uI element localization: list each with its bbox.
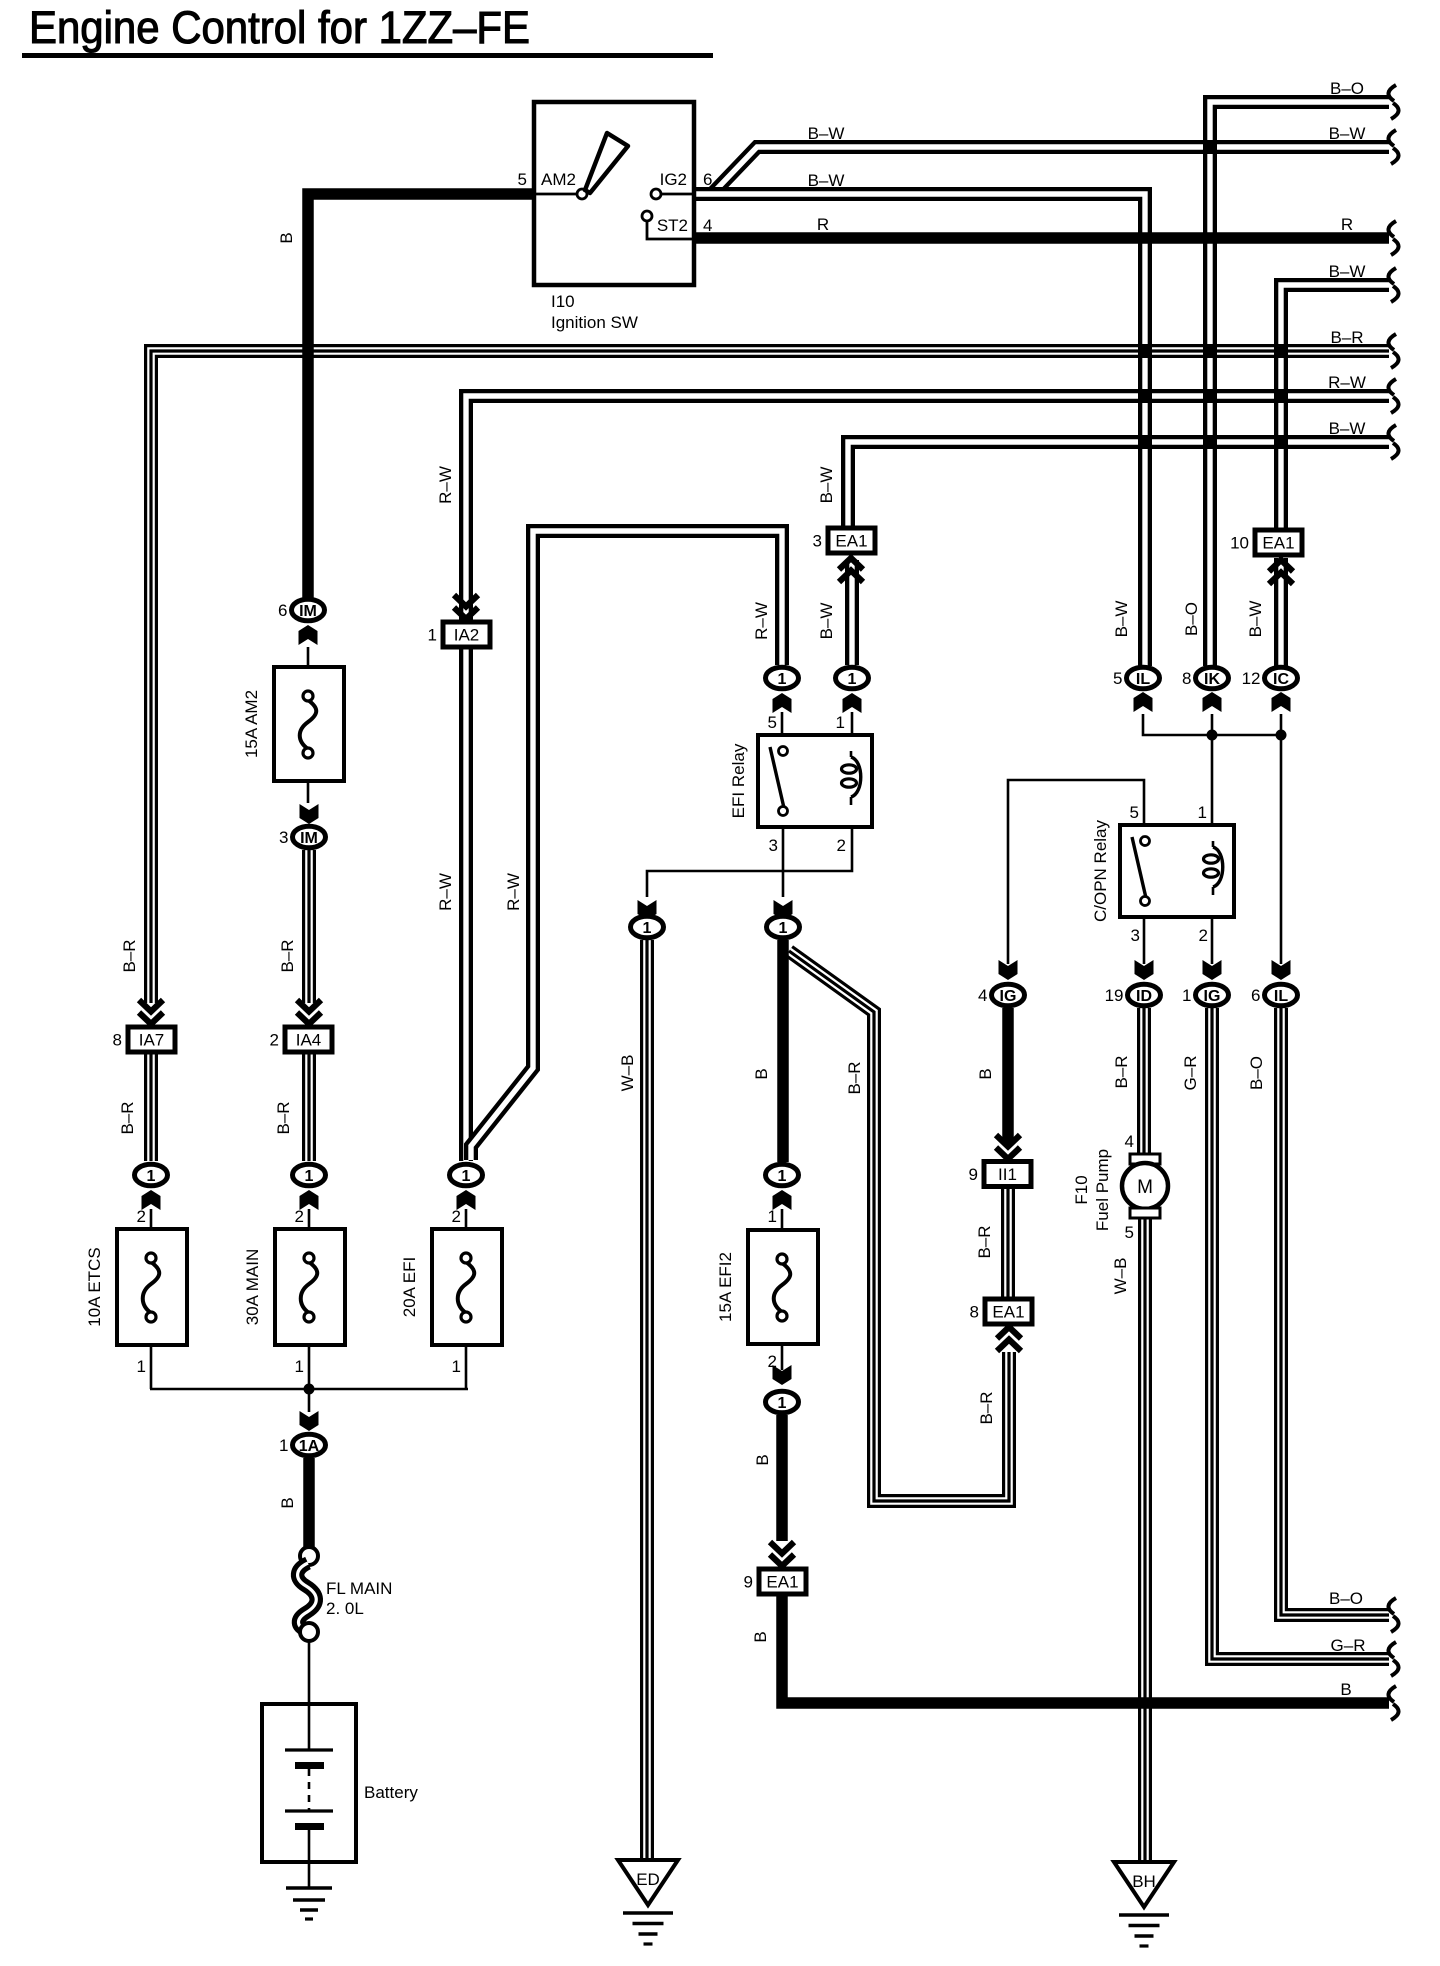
svg-text:2: 2 xyxy=(270,1031,279,1050)
fuse 15A EFI2 xyxy=(716,1230,818,1344)
wire end B–W xyxy=(1388,425,1398,459)
wire B thick from EFI relay pin 3 to 15A EFI2 fuse xyxy=(777,940,789,1162)
arrow into connector IL pin 5 xyxy=(1134,692,1153,712)
arrow into junction connector EA1 pin 9 xyxy=(770,1542,794,1566)
wire B–W from ignition SW IG2 down to connector IL pin 5 xyxy=(694,194,1145,666)
svg-text:B–W: B–W xyxy=(1112,601,1131,638)
arrow into junction connector EA1 pin 3 xyxy=(839,558,863,582)
svg-text:R: R xyxy=(817,215,829,234)
svg-text:1: 1 xyxy=(1182,986,1191,1005)
wire: C/OPN relay pin 3 to connector ID pin 19 xyxy=(1143,902,1146,964)
svg-text:1: 1 xyxy=(147,1168,156,1185)
fuse 30A MAIN xyxy=(243,1229,345,1345)
connector IL pin 5 xyxy=(1113,667,1159,689)
svg-text:ID: ID xyxy=(1136,988,1152,1005)
svg-text:IA2: IA2 xyxy=(454,626,480,645)
svg-text:10A ETCS: 10A ETCS xyxy=(85,1247,104,1326)
svg-text:20A EFI: 20A EFI xyxy=(400,1257,419,1317)
connector II1 pin 9 xyxy=(969,1162,1031,1187)
svg-text:IL: IL xyxy=(1136,671,1150,688)
svg-text:B–W: B–W xyxy=(1329,124,1366,143)
junction connector EA1 pin 9 xyxy=(744,1569,806,1594)
svg-text:B–R: B–R xyxy=(845,1061,864,1094)
svg-text:19: 19 xyxy=(1105,986,1124,1005)
svg-text:B–W: B–W xyxy=(1246,601,1265,638)
svg-text:2. 0L: 2. 0L xyxy=(326,1599,364,1618)
svg-text:B–W: B–W xyxy=(808,124,845,143)
wire B–O from connector IK pin 8 to right edge xyxy=(1210,102,1389,666)
svg-text:B–O: B–O xyxy=(1182,602,1201,636)
svg-text:1: 1 xyxy=(778,671,787,688)
svg-text:B–R: B–R xyxy=(1330,328,1363,347)
wire B–O from connector IL pin 6 to right edge xyxy=(1281,1008,1389,1615)
svg-text:3: 3 xyxy=(279,828,288,847)
svg-text:6: 6 xyxy=(703,170,712,189)
svg-text:Fuel Pump: Fuel Pump xyxy=(1093,1149,1112,1231)
junction node at C/OPN relay coil feed xyxy=(1207,730,1218,741)
connector pin 1 above 15A EFI2 fuse xyxy=(766,1164,799,1186)
arrow into connector IG pin 1 xyxy=(1203,960,1222,980)
fuse 10A ETCS xyxy=(85,1229,187,1345)
svg-text:FL MAIN: FL MAIN xyxy=(326,1579,392,1598)
svg-text:Battery: Battery xyxy=(364,1783,418,1802)
wire B thick from ignition SW AM2 to connector IM pin 6 xyxy=(308,194,534,599)
ground at battery xyxy=(286,1888,332,1919)
svg-text:M: M xyxy=(1137,1177,1153,1198)
wire: EFI relay pin 1 lead xyxy=(851,712,854,758)
wire: EFI relay pin 5 lead xyxy=(781,712,784,747)
svg-text:IA4: IA4 xyxy=(296,1031,322,1050)
svg-text:ST2: ST2 xyxy=(657,216,688,235)
wire R–W loop from EFI relay pin 5 to 20A EFI fuse xyxy=(471,531,782,1160)
svg-text:2: 2 xyxy=(452,1207,461,1226)
svg-text:BH: BH xyxy=(1132,1872,1156,1891)
connector IG pin 1 xyxy=(1182,984,1228,1006)
svg-text:1: 1 xyxy=(462,1168,471,1185)
wire R thick from ignition SW ST2 to right edge xyxy=(694,232,1389,244)
svg-text:IG2: IG2 xyxy=(660,170,687,189)
svg-text:2: 2 xyxy=(837,836,846,855)
svg-text:G–R: G–R xyxy=(1331,1636,1366,1655)
arrow into connector at EFI relay pin 5 xyxy=(773,693,792,713)
title: Engine Control for 1ZZ-FE xyxy=(22,2,713,58)
svg-text:2: 2 xyxy=(137,1207,146,1226)
wire R–W from right edge through junction connector IA2 to 20A EFI fuse xyxy=(466,396,1389,1161)
fuse pin numbers xyxy=(137,1207,777,1376)
svg-text:1: 1 xyxy=(768,1207,777,1226)
wire G–R from connector IG pin 1 to right edge xyxy=(1212,1008,1389,1659)
ground BH xyxy=(1114,1862,1174,1946)
ignition switch I10 xyxy=(518,102,713,332)
arrow into connector at EFI relay pin 3 xyxy=(774,900,793,920)
svg-text:B–O: B–O xyxy=(1329,1589,1363,1608)
svg-text:B–R: B–R xyxy=(977,1391,996,1424)
wire end B–W xyxy=(1388,268,1398,302)
svg-text:3: 3 xyxy=(769,836,778,855)
connector pin 1 above 10A ETCS fuse xyxy=(135,1164,168,1186)
arrow into connector above 15A EFI2 fuse xyxy=(773,1190,792,1210)
wire: 15A AM2 fuse to connector IM pin 3 xyxy=(307,751,310,803)
fusible link FL MAIN 2.0L xyxy=(298,1547,393,1641)
wire: fusible link FL MAIN to battery xyxy=(308,1641,311,1705)
C/OPN relay pin numbers 5 1 3 2 xyxy=(1130,803,1208,945)
arrow into connector at EFI relay pin 2 xyxy=(638,900,657,920)
wire: connector IC pin 12 to connector IL pin 6 xyxy=(1280,714,1283,964)
svg-text:15A AM2: 15A AM2 xyxy=(242,690,261,758)
svg-text:8: 8 xyxy=(970,1303,979,1322)
wire B–R from junction connector IA7 down to 10A ETCS fuse xyxy=(144,1052,158,1161)
wire end B–R xyxy=(1388,334,1398,368)
svg-text:II1: II1 xyxy=(998,1165,1017,1184)
svg-text:9: 9 xyxy=(744,1573,753,1592)
svg-text:3: 3 xyxy=(1131,926,1140,945)
svg-text:5: 5 xyxy=(768,713,777,732)
svg-text:1: 1 xyxy=(1198,803,1207,822)
wire B–R from connector II1 pin 9 to junction connector EA1 pin 8 xyxy=(1001,1188,1015,1299)
wire: fuse supply bus xyxy=(150,1388,468,1391)
arrow into connector II1 pin 9 xyxy=(996,1135,1020,1159)
svg-text:IM: IM xyxy=(300,830,318,847)
wire end B–W xyxy=(1388,130,1398,164)
wire end R–W xyxy=(1388,379,1398,413)
svg-text:1: 1 xyxy=(836,713,845,732)
svg-text:B: B xyxy=(752,1068,771,1079)
relay C/OPN Relay xyxy=(1091,819,1234,922)
junction node on fuse supply bus xyxy=(304,1384,315,1395)
wire B–W from junction connector EA1 pin 3 to right edge xyxy=(848,442,1389,528)
svg-text:1A: 1A xyxy=(299,1438,320,1455)
svg-text:8: 8 xyxy=(1182,669,1191,688)
wire: connector IM pin 6 to 15A AM2 fuse xyxy=(307,647,310,690)
svg-text:1: 1 xyxy=(778,1168,787,1185)
arrow into junction connector EA1 pin 10 xyxy=(1269,560,1293,584)
arrow into junction connector IA2 xyxy=(454,595,478,619)
connector IC pin 12 xyxy=(1242,667,1298,689)
svg-text:R–W: R–W xyxy=(1328,373,1366,392)
svg-text:R–W: R–W xyxy=(504,873,523,911)
svg-text:30A MAIN: 30A MAIN xyxy=(243,1249,262,1326)
relay EFI Relay xyxy=(729,735,872,827)
svg-text:4: 4 xyxy=(1125,1132,1134,1151)
svg-text:B–R: B–R xyxy=(1112,1055,1131,1088)
junction connector IA7 pin 8 xyxy=(113,1027,175,1052)
svg-text:12: 12 xyxy=(1242,669,1261,688)
arrow into connector ID pin 19 xyxy=(1135,960,1154,980)
wire: connector to 15A EFI2 fuse pin 1 xyxy=(781,1209,784,1260)
svg-text:EA1: EA1 xyxy=(835,532,867,551)
svg-text:4: 4 xyxy=(703,216,712,235)
wire B–R from EFI relay output loop to junction connector EA1 pin 8 xyxy=(789,951,1009,1501)
connector IG pin 4 xyxy=(978,984,1024,1006)
svg-text:2: 2 xyxy=(295,1207,304,1226)
svg-text:EA1: EA1 xyxy=(766,1573,798,1592)
svg-text:B: B xyxy=(753,1454,772,1465)
fuse 20A EFI xyxy=(400,1229,502,1345)
arrow into junction connector IA4 xyxy=(297,1000,321,1024)
wire B–R from connector ID pin 19 to fuel pump pin 4 xyxy=(1137,1008,1151,1157)
wire B thick from 15A EFI2 fuse to junction connector EA1 pin 9 xyxy=(776,1415,788,1541)
EFI relay pin numbers 5 1 3 2 xyxy=(768,713,846,855)
connector IM pin 3 xyxy=(279,826,325,848)
wire end G–R xyxy=(1388,1642,1398,1676)
svg-text:IK: IK xyxy=(1204,671,1220,688)
svg-text:R–W: R–W xyxy=(436,466,455,504)
connector IL pin 6 xyxy=(1251,984,1297,1006)
arrow into connector below 15A EFI2 fuse xyxy=(773,1365,792,1385)
svg-text:4: 4 xyxy=(978,986,987,1005)
svg-text:IA7: IA7 xyxy=(139,1031,165,1050)
connector pin 1 below 15A EFI2 fuse xyxy=(766,1391,799,1413)
svg-text:8: 8 xyxy=(113,1031,122,1050)
arrow into connector IM pin 3 xyxy=(300,804,319,824)
svg-text:B–R: B–R xyxy=(975,1225,994,1258)
svg-text:B–W: B–W xyxy=(1329,262,1366,281)
junction connector IA2 pin 1 xyxy=(428,622,490,647)
svg-text:10: 10 xyxy=(1230,534,1249,553)
svg-text:EFI Relay: EFI Relay xyxy=(729,743,748,818)
wire W–B from fuel pump pin 5 to ground BH xyxy=(1138,1217,1152,1864)
wire: connector IK pin 8 to C/OPN relay coil pin 1 xyxy=(1211,714,1214,848)
svg-text:IG: IG xyxy=(1204,988,1221,1005)
wire end R xyxy=(1388,221,1398,255)
svg-text:1: 1 xyxy=(778,1395,787,1412)
svg-text:EA1: EA1 xyxy=(992,1303,1024,1322)
svg-text:1: 1 xyxy=(428,626,437,645)
svg-text:9: 9 xyxy=(969,1165,978,1184)
arrow into connector IG pin 4 xyxy=(999,960,1018,980)
fuel pump F10 motor M xyxy=(1072,1132,1168,1242)
wire W–B from EFI relay pin 2 to ground ED xyxy=(640,940,654,1862)
ground ED xyxy=(618,1860,678,1944)
svg-text:1: 1 xyxy=(137,1357,146,1376)
svg-text:I10: I10 xyxy=(551,292,575,311)
connector pin 1 above 30A MAIN fuse xyxy=(293,1164,326,1186)
arrow into connector IC pin 12 xyxy=(1272,692,1291,712)
svg-text:5: 5 xyxy=(1113,669,1122,688)
svg-text:Ignition SW: Ignition SW xyxy=(551,313,638,332)
svg-text:AM2: AM2 xyxy=(541,170,576,189)
connector pin 1 at EFI relay pin 5 xyxy=(766,667,799,689)
svg-text:C/OPN Relay: C/OPN Relay xyxy=(1091,819,1110,922)
svg-text:B–R: B–R xyxy=(274,1101,293,1134)
svg-text:R–W: R–W xyxy=(752,602,771,640)
svg-text:6: 6 xyxy=(278,601,287,620)
svg-text:1: 1 xyxy=(295,1357,304,1376)
connector ID pin 19 xyxy=(1105,984,1161,1006)
wire B–R from junction connector IA4 down to 30A MAIN fuse xyxy=(302,1052,316,1161)
wire: connector to 10A ETCS fuse pin 2 xyxy=(150,1209,153,1260)
svg-text:EA1: EA1 xyxy=(1262,534,1294,553)
junction node at connector IC feed xyxy=(1276,730,1287,741)
junction connector EA1 pin 10 xyxy=(1230,530,1302,555)
svg-text:B: B xyxy=(1340,1680,1351,1699)
svg-text:6: 6 xyxy=(1251,986,1260,1005)
svg-text:IM: IM xyxy=(299,603,317,620)
wire end B–O xyxy=(1388,1598,1398,1632)
svg-text:R–W: R–W xyxy=(436,873,455,911)
svg-text:15A EFI2: 15A EFI2 xyxy=(716,1252,735,1322)
wire: C/OPN relay coil pin 2 to connector IG pin 1 xyxy=(1211,898,1214,964)
svg-text:B–W: B–W xyxy=(1329,419,1366,438)
wire: battery negative to ground xyxy=(308,1860,311,1888)
svg-text:R: R xyxy=(1341,215,1353,234)
arrow into connector above 10A ETCS fuse xyxy=(142,1190,161,1210)
wire B–W from ignition SW IG2 to right edge xyxy=(694,147,1389,194)
svg-text:B–W: B–W xyxy=(817,603,836,640)
svg-text:5: 5 xyxy=(1125,1223,1134,1242)
svg-text:5: 5 xyxy=(1130,803,1139,822)
wire: connector to 30A MAIN fuse pin 2 xyxy=(308,1209,311,1260)
svg-text:B–W: B–W xyxy=(808,171,845,190)
wire B thick from junction connector EA1 pin 9 to right edge xyxy=(782,1595,1389,1703)
arrow into connector IM pin 6 xyxy=(299,625,318,645)
svg-text:IC: IC xyxy=(1273,671,1289,688)
svg-text:1: 1 xyxy=(452,1357,461,1376)
svg-text:IG: IG xyxy=(1000,988,1017,1005)
svg-text:W–B: W–B xyxy=(618,1055,637,1092)
wire B thick from connector 1A to fusible link FL MAIN xyxy=(303,1458,315,1549)
wire end B xyxy=(1388,1686,1398,1720)
wire B–R from connector IM pin 3 to junction connector IA4 pin 2 xyxy=(302,850,316,1003)
svg-text:G–R: G–R xyxy=(1181,1056,1200,1091)
connector 1A pin 1 xyxy=(279,1434,325,1456)
svg-text:3: 3 xyxy=(813,532,822,551)
connector IM pin 6 xyxy=(278,599,324,621)
arrow into junction connector EA1 pin 8 xyxy=(997,1327,1021,1351)
svg-text:1: 1 xyxy=(779,920,788,937)
svg-text:5: 5 xyxy=(518,170,527,189)
svg-text:1: 1 xyxy=(643,920,652,937)
svg-text:B: B xyxy=(278,1497,297,1508)
svg-text:B–O: B–O xyxy=(1330,79,1364,98)
svg-text:Engine Control for 1ZZ–FE: Engine Control for 1ZZ–FE xyxy=(29,2,530,53)
connector pin 1 at EFI relay pin 3 xyxy=(767,916,800,938)
connector IK pin 8 xyxy=(1182,667,1228,689)
arrow into junction connector IA7 xyxy=(139,1000,163,1024)
svg-text:2: 2 xyxy=(1199,926,1208,945)
wire B–W from EFI relay pin 1 up to junction connector EA1 pin 3 xyxy=(845,560,859,665)
svg-text:F10: F10 xyxy=(1072,1175,1091,1204)
wire: 15A EFI2 fuse pin 2 lead xyxy=(781,1315,784,1370)
svg-text:B: B xyxy=(976,1068,995,1079)
wire B–W from junction connector EA1 pin 10 to right edge xyxy=(1281,285,1389,530)
wire: 30A MAIN fuse pin 1 to connector 1A xyxy=(308,1315,311,1412)
junction connector IA4 pin 2 xyxy=(270,1027,332,1052)
fuse 15A AM2 xyxy=(242,667,344,781)
arrow into connector IL pin 6 xyxy=(1272,960,1291,980)
junction connector EA1 pin 3 xyxy=(813,528,875,553)
arrow into connector above 20A EFI fuse xyxy=(457,1190,476,1210)
arrow into connector 1A xyxy=(300,1411,319,1431)
wire end B–O xyxy=(1388,85,1398,119)
connector pin 1 at EFI relay pin 1 xyxy=(836,667,869,689)
wire crossing patches xyxy=(1138,140,1288,449)
battery xyxy=(262,1704,418,1862)
svg-text:1: 1 xyxy=(279,1436,288,1455)
svg-text:1: 1 xyxy=(848,671,857,688)
arrow into connector at EFI relay pin 1 xyxy=(843,693,862,713)
svg-text:B–R: B–R xyxy=(278,939,297,972)
svg-text:B–O: B–O xyxy=(1247,1056,1266,1090)
svg-text:B: B xyxy=(751,1631,770,1642)
wire B–W from connector IC pin 12 up to junction connector EA1 pin 10 xyxy=(1274,558,1288,666)
wire B–R from right edge down to junction connector IA7 pin 8 xyxy=(151,351,1389,1003)
wire: connector to 20A EFI fuse pin 2 xyxy=(465,1209,468,1260)
svg-text:W–B: W–B xyxy=(1111,1258,1130,1295)
svg-text:B–R: B–R xyxy=(118,1101,137,1134)
wire: junction from connector IL pin 5 feed xyxy=(1143,714,1281,735)
arrow into connector IK pin 8 xyxy=(1203,692,1222,712)
svg-text:IL: IL xyxy=(1274,988,1288,1005)
svg-text:1: 1 xyxy=(305,1168,314,1185)
connector pin 1 at EFI relay pin 2 xyxy=(631,916,664,938)
svg-text:B–R: B–R xyxy=(120,939,139,972)
svg-text:2: 2 xyxy=(768,1352,777,1371)
junction connector EA1 pin 8 xyxy=(970,1299,1032,1324)
svg-text:ED: ED xyxy=(636,1870,660,1889)
wire B thick from connector IG pin 4 to connector II1 pin 9 xyxy=(1002,1008,1014,1145)
wire: C/OPN relay pin 5 to connector IG pin 4 xyxy=(1008,780,1144,964)
svg-text:B–W: B–W xyxy=(817,467,836,504)
wire: 20A EFI fuse pin 1 to bus xyxy=(465,1315,468,1389)
wire: EFI relay pin 3 lead xyxy=(782,808,785,897)
arrow into connector above 30A MAIN fuse xyxy=(300,1190,319,1210)
wire: EFI relay pin 2 lead to ground wire W-B xyxy=(647,798,852,897)
connector pin 1 above 20A EFI fuse xyxy=(450,1164,483,1186)
svg-text:B: B xyxy=(277,232,296,243)
wire: 10A ETCS fuse pin 1 to bus xyxy=(150,1315,153,1389)
